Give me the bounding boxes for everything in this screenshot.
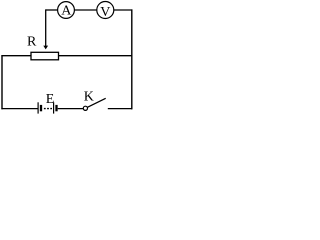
wire left vertical side bbox=[1, 55, 3, 109]
wire middle right segment bbox=[59, 55, 133, 57]
wire bottom-left segment to battery bbox=[1, 108, 37, 110]
wire top-left segment from wiper corner to ammeter bbox=[46, 9, 58, 11]
wire switch to bottom-right corner bbox=[108, 108, 132, 110]
svg-text:R: R bbox=[27, 35, 37, 50]
svg-text:A: A bbox=[61, 3, 72, 18]
wire between ammeter and voltmeter bbox=[74, 9, 97, 11]
wire right vertical side bbox=[131, 9, 133, 109]
svg-text:V: V bbox=[100, 5, 110, 20]
wiper arrow head bbox=[43, 46, 48, 50]
resistor R box (rheostat) bbox=[31, 52, 59, 60]
ammeter A bbox=[58, 2, 75, 19]
wire middle left segment bbox=[1, 55, 31, 57]
wire from voltmeter to top-right corner bbox=[114, 9, 133, 11]
battery E bbox=[38, 102, 56, 113]
wire wiper vertical from top wire down to arrow bbox=[45, 9, 47, 46]
svg-text:K: K bbox=[84, 89, 94, 104]
svg-text:E: E bbox=[46, 92, 55, 107]
wire battery to switch bbox=[58, 108, 84, 110]
switch K blade bbox=[87, 98, 105, 107]
switch K pivot bbox=[83, 106, 87, 110]
voltmeter V bbox=[97, 2, 114, 21]
